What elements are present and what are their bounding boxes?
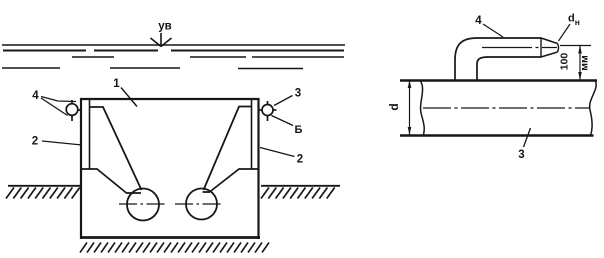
well outer right wall [257,98,259,239]
right pump bell circle [186,189,217,220]
svg-text:1: 1 [113,78,120,90]
right valve [259,101,277,121]
right pump centerline [175,203,223,205]
ground line left [8,185,81,187]
dimension 100 line [579,46,581,81]
right bench ledge [203,169,259,192]
water dashes row 1 [72,56,344,58]
ground hatching left [6,188,80,199]
leader 3 [274,96,293,106]
dimension d [409,80,411,135]
left pump bell circle [127,189,159,221]
water dashes row 2 [2,67,303,70]
right suction pipe diagonal [204,107,252,191]
standpipe centerline [482,47,557,49]
svg-text:мм: мм [579,55,591,71]
svg-text:Б: Б [295,124,303,136]
main pipe left break [420,81,424,135]
svg-text:2: 2 [297,154,303,166]
ground line right [261,185,340,187]
nozzle tip face [557,44,560,53]
leader 1 [121,88,137,107]
well inner left wall [89,99,91,169]
leader Б [272,116,294,126]
leader 2 left [42,141,82,145]
svg-text:3: 3 [295,88,301,100]
well bottom slab [80,236,260,239]
bottom hatching [80,243,269,253]
svg-text:3: 3 [518,149,524,161]
svg-text:4: 4 [475,15,482,27]
leader 3 [524,128,531,147]
svg-text:ув: ув [158,21,171,33]
svg-text:100: 100 [559,53,571,71]
dimension 100 extension line [560,45,591,47]
svg-text:2: 2 [32,136,38,148]
left pump centerline [119,203,167,205]
left suction pipe diagonal [89,107,142,190]
standpipe inner profile [477,57,541,80]
water level arrow [151,33,172,47]
main pipe right break [590,81,597,136]
left valve [66,100,81,121]
well outer left wall [80,98,82,239]
nozzle taper top [541,38,558,44]
water surface line [2,44,345,46]
svg-text:d: d [387,103,401,110]
leader dн [559,24,571,41]
leader 2 right [260,148,295,157]
main pipe top edge [400,79,597,81]
main pipe bottom edge [400,134,594,137]
well inner right wall [251,99,253,169]
ground hatching right [261,188,335,199]
standpipe outer profile [455,38,541,80]
leader 4 [483,24,503,37]
svg-text:4: 4 [32,90,39,102]
well top slab [80,98,260,100]
left bench ledge [82,169,141,193]
nozzle taper bottom [541,52,558,57]
water surface second line [3,50,344,52]
main pipe centerline [423,107,590,109]
leaders 4 [41,97,76,116]
nozzle joint [540,38,542,57]
